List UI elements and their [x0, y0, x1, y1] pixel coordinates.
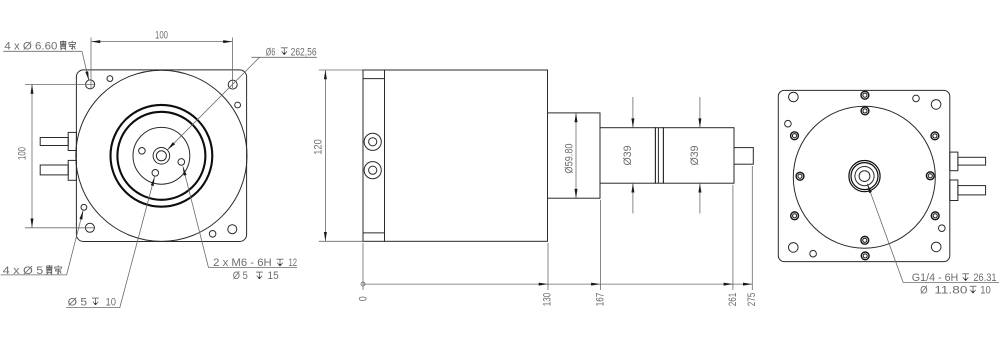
- svg-text:167: 167: [594, 293, 606, 307]
- svg-text:11.80: 11.80: [934, 285, 967, 297]
- svg-text:0: 0: [358, 296, 370, 301]
- svg-text:Ø 5: Ø 5: [68, 297, 88, 309]
- body circle: [76, 70, 247, 241]
- corner hole TR: [228, 80, 237, 89]
- dim 100 top extension left: [90, 38, 92, 89]
- thick circle outer: [110, 105, 212, 207]
- ring band: [655, 128, 663, 184]
- hub small: [859, 171, 870, 182]
- right connectors: [950, 152, 958, 171]
- pilot circle: [133, 127, 190, 184]
- svg-text:100: 100: [155, 29, 168, 41]
- connector top tube: [40, 138, 68, 146]
- small hole BL: [81, 204, 87, 210]
- small holes: [785, 120, 792, 127]
- flange square: [76, 70, 246, 242]
- body circle: [793, 106, 935, 248]
- svg-text:100: 100: [17, 147, 29, 160]
- thick circle inner: [117, 112, 205, 200]
- corner hole BR: [228, 225, 237, 234]
- svg-text:Ø59.80: Ø59.80: [563, 143, 575, 173]
- svg-text:10: 10: [106, 297, 117, 309]
- small hole BR: [209, 231, 216, 238]
- face hole right: [178, 159, 185, 166]
- dim 100 top arrow left: [91, 40, 100, 43]
- dim 100 left extension top: [25, 83, 94, 85]
- main body: [385, 70, 548, 241]
- dim 100 top extension right: [232, 38, 234, 89]
- small hole TR: [235, 102, 241, 108]
- dim 100 left line: [31, 84, 33, 227]
- svg-text:Ø 5: Ø 5: [233, 270, 248, 282]
- connector top wide: [68, 132, 76, 150]
- hub ring outer: [849, 161, 880, 192]
- connector bottom wide: [68, 160, 76, 180]
- label 4x6.60 cjk: [61, 41, 66, 50]
- svg-text:Ø39: Ø39: [689, 145, 701, 165]
- label 4x5 leader: [67, 210, 84, 275]
- svg-text:130: 130: [542, 293, 554, 307]
- svg-text:261: 261: [727, 293, 739, 307]
- strip inner line bottom: [363, 232, 385, 234]
- shaft stub: [734, 148, 753, 165]
- svg-text:120: 120: [313, 139, 325, 155]
- outer screws: [861, 91, 869, 99]
- svg-text:15: 15: [268, 270, 279, 282]
- dim 39b lines: [699, 97, 701, 128]
- flange square: [778, 90, 950, 261]
- side connector top: [364, 133, 381, 150]
- label O6 underline: [251, 56, 317, 58]
- origin circle: [361, 282, 365, 286]
- cylinder 39 b: [663, 128, 734, 184]
- corner hole TL: [86, 80, 95, 89]
- bottom ext lines: [362, 243, 364, 290]
- G1/4 leader: [867, 184, 903, 283]
- strip inner line top: [363, 78, 385, 80]
- bottom dim arrows: [539, 283, 548, 286]
- svg-text:262,56: 262,56: [291, 46, 317, 58]
- dim 59.80 line: [575, 113, 577, 198]
- cylinder 59.80: [548, 113, 601, 198]
- ring band inner line: [657, 128, 659, 184]
- hub mid: [855, 167, 874, 186]
- corner hole BL: [85, 223, 94, 232]
- dim 120 line: [324, 70, 326, 241]
- svg-text:Ø6: Ø6: [266, 46, 276, 58]
- label 4x5 underline: [1, 274, 67, 276]
- label O6 leader: [167, 57, 259, 150]
- small hole TL: [107, 76, 113, 82]
- svg-text:275: 275: [746, 293, 758, 307]
- corner holes: [789, 92, 799, 102]
- face hole bottom: [152, 170, 159, 177]
- G1/4 underline: [903, 282, 999, 284]
- label O5x10 leader: [120, 177, 155, 308]
- side connector bottom: [364, 162, 381, 179]
- hub ring inner: [851, 163, 878, 190]
- label 4x6.60 underline: [3, 50, 82, 52]
- svg-text:Ø: Ø: [920, 285, 928, 297]
- svg-text:G1/4 - 6H: G1/4 - 6H: [912, 272, 959, 284]
- hub outer: [153, 148, 170, 165]
- hub inner: [156, 151, 166, 161]
- flange strip: [363, 70, 385, 241]
- dim 100 top line: [91, 41, 233, 43]
- dim 100 left arrow up: [31, 84, 34, 93]
- svg-text:4 x Ø 5: 4 x Ø 5: [3, 265, 44, 277]
- connector bottom tube: [40, 165, 68, 175]
- dim 100 left arrow down: [31, 219, 34, 228]
- dim 120 ext top: [319, 69, 363, 71]
- svg-text:Ø39: Ø39: [622, 145, 634, 165]
- cylinder 39 a: [600, 128, 655, 184]
- dim 120 ext bottom: [319, 240, 363, 242]
- label 2xM6 underline: [209, 267, 297, 269]
- face hole left: [139, 148, 146, 155]
- label 4x6.60 leader: [82, 51, 89, 80]
- dim 100 top arrow right: [223, 40, 232, 43]
- label O5x10 underline: [66, 307, 120, 309]
- dim 100 left extension bottom: [25, 227, 94, 229]
- label 4x5 cjk: [47, 265, 52, 274]
- inner screws N E S W: [861, 107, 869, 115]
- svg-text:26.31: 26.31: [973, 272, 996, 284]
- label 2xM6 leader: [183, 166, 209, 267]
- dim 39a lines: [632, 97, 634, 128]
- svg-text:10: 10: [980, 285, 991, 297]
- bottom dim baseline: [363, 283, 752, 285]
